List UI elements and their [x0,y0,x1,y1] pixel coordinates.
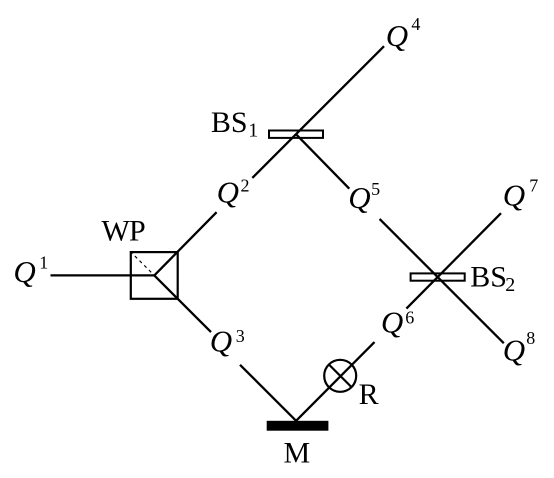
node Q1 label [13,253,48,289]
svg-text:3: 3 [236,326,245,346]
svg-text:Q: Q [210,324,232,359]
svg-text:Q: Q [381,304,403,339]
wire: BS1 to Q5 label [296,134,349,189]
rotator R cross chord [329,365,352,388]
label BS1 [211,106,258,142]
node Q7 label [503,176,539,213]
svg-text:Q: Q [503,178,525,213]
svg-text:BS: BS [470,261,507,294]
node Q3 label [210,324,245,359]
svg-text:Q: Q [386,18,408,53]
svg-text:R: R [359,378,379,411]
beam splitter BS1 [269,131,323,138]
wire: Q1 input beam [51,274,155,276]
wire: WP to Q3 label [154,275,211,332]
beam splitter BS2 [411,273,465,280]
wire: Q6 through BS2 to Q7 [406,213,501,308]
svg-text:Q: Q [13,254,35,289]
svg-text:5: 5 [371,179,380,199]
wire: WP to Q2 label [154,212,216,275]
node Q4 label [386,14,421,53]
svg-text:Q: Q [217,174,239,209]
svg-text:BS: BS [211,106,248,139]
rotator R circle [324,360,356,392]
wire: Q3 to mirror M [240,365,296,421]
svg-text:Q: Q [503,332,525,367]
wire: M to Q6 label through R [296,342,374,421]
svg-text:1: 1 [39,253,48,273]
wire: Q5 through BS2 to Q8 [380,219,504,343]
node Q2 label [217,174,250,209]
node Q8 label [503,328,536,367]
svg-text:M: M [284,437,311,470]
svg-text:2: 2 [505,274,515,296]
node Q5 label [348,179,380,215]
svg-text:WP: WP [102,215,146,248]
label BS2 [470,261,515,296]
svg-text:7: 7 [529,176,538,196]
waveplate WP box [131,252,178,299]
svg-text:Q: Q [348,180,370,215]
svg-text:2: 2 [241,175,250,195]
svg-text:4: 4 [411,14,420,34]
mirror M [267,421,329,431]
svg-text:1: 1 [248,120,258,142]
svg-text:6: 6 [405,307,414,327]
waveplate WP dashed diagonal [130,251,154,275]
wire: Q2 through BS1 to Q4 [252,46,384,178]
node Q6 label [381,304,414,339]
svg-text:8: 8 [526,328,535,348]
